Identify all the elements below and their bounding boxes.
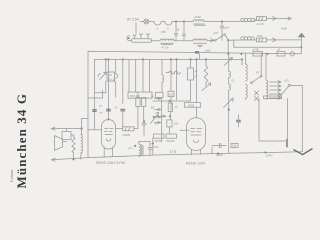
- band switch contact 3: [153, 116, 161, 118]
- wire bus left hook: [95, 59, 106, 129]
- dial lamp: [290, 52, 294, 56]
- speaker rail top: [52, 127, 82, 130]
- wire L3 to L5: [174, 40, 193, 42]
- fuse crosses: [255, 91, 259, 101]
- mains cap 1: [253, 47, 263, 56]
- coil L1 tap 2: [140, 34, 143, 39]
- svg-text:DR09: DR09: [123, 133, 131, 137]
- svg-text:RENS 1294: RENS 1294: [186, 162, 205, 166]
- band switch wiper arrow: [151, 112, 159, 123]
- coupling capacitor C7: [212, 143, 226, 157]
- svg-text:CM: CM: [169, 92, 174, 96]
- svg-text:4·10³: 4·10³: [257, 22, 264, 26]
- wire L1 to L3: [152, 40, 161, 42]
- svg-text:μP0Z: μP0Z: [216, 153, 223, 157]
- svg-text:μT0: μT0: [284, 79, 289, 83]
- wire top chain end: [276, 17, 291, 20]
- wire tube V2 anode: [196, 59, 198, 117]
- coupling box tall: [188, 59, 198, 101]
- band switch contact 1: [151, 95, 161, 100]
- wire IF drop: [142, 59, 144, 92]
- svg-text:1W: 1W: [232, 144, 237, 148]
- mains switch: [251, 54, 263, 84]
- node top 228: [227, 53, 229, 55]
- speaker cone: [55, 136, 67, 151]
- capacitor on anode line: [107, 109, 111, 111]
- wire right drop: [301, 85, 303, 151]
- wire tube1 anode: [108, 59, 110, 119]
- resistor box upper left of V2: [168, 103, 178, 112]
- node tap 1: [175, 21, 177, 23]
- wire tap2 trimmer drop: [182, 22, 185, 41]
- node bus cap drop: [122, 59, 124, 61]
- supply bus: [95, 58, 243, 60]
- wire y101 horizontal: [153, 100, 191, 102]
- coil L6: [241, 37, 257, 40]
- small box B: [156, 92, 164, 97]
- choke winding with core: [139, 142, 143, 157]
- svg-text:WB: WB: [161, 30, 166, 34]
- wire shield drop: [234, 40, 301, 47]
- capacitor C5: [148, 142, 159, 156]
- node shield corner: [301, 47, 303, 49]
- band switch contact 4: [155, 121, 161, 123]
- wire node D to L6: [228, 39, 241, 41]
- wavetrap coil dips: [154, 22, 172, 26]
- node mid rail: [217, 153, 219, 155]
- capacitor on grid feed: [93, 110, 97, 112]
- capacitor C4: [142, 121, 146, 137]
- voltage selector winding: [266, 54, 268, 99]
- node tube1 top: [108, 119, 110, 121]
- wire fuse left lead: [140, 21, 144, 23]
- svg-text:B0: B0: [151, 106, 155, 110]
- arrow connector lower: [267, 38, 277, 42]
- wire tube V2 grid lead: [180, 129, 189, 131]
- wire bus right end drop: [241, 59, 243, 65]
- svg-text:P03: P03: [257, 34, 263, 38]
- power transformer primary upper: [246, 54, 248, 81]
- tube V2 grid dashes: [191, 129, 202, 143]
- svg-text:A0B: A0B: [281, 27, 287, 31]
- node mains 2: [267, 53, 269, 55]
- svg-text:SMC9: SMC9: [167, 139, 175, 143]
- wire mid vertical 3: [135, 59, 137, 92]
- wire mid vertical 4: [149, 59, 151, 92]
- grid stopper box SM3: [185, 103, 201, 108]
- coil L3 with core: [160, 39, 174, 44]
- band switch rail: [161, 98, 163, 143]
- tube V2 envelope: [187, 118, 206, 151]
- svg-text:AT 2,5A: AT 2,5A: [127, 18, 140, 22]
- wire transformer risers: [73, 119, 83, 161]
- antenna input hook: [127, 36, 132, 41]
- svg-text:μM: μM: [225, 26, 230, 30]
- antenna lead wire: [135, 23, 137, 34]
- wire between boxes: [169, 112, 171, 135]
- coil L1 tap 3: [147, 34, 150, 39]
- ground mark under L5: [198, 45, 203, 46]
- node antenna hook: [128, 37, 129, 38]
- antenna coil body L1: [132, 39, 152, 42]
- wire lower chain end: [276, 39, 301, 41]
- wire 199 drop: [199, 54, 201, 60]
- arrow contact into V2 chain: [155, 115, 166, 117]
- svg-text:1W: 1W: [174, 122, 178, 126]
- hf choke column: [224, 54, 235, 154]
- wire vertical 175: [176, 59, 178, 100]
- resistor R5: [123, 127, 135, 131]
- resistor R4a vertical: [134, 92, 140, 128]
- svg-text:μP0Y: μP0Y: [266, 153, 273, 157]
- coupling parts left of V2: [168, 59, 174, 110]
- wire switch rail to bottom: [152, 138, 154, 155]
- wire choke top feed: [139, 141, 150, 143]
- transformer bottom box: [259, 96, 288, 147]
- node bus 1: [105, 59, 107, 61]
- wire tube V1 anode lead: [116, 127, 123, 129]
- wire tube V1 grid lead: [88, 129, 102, 131]
- speaker field coil box: [62, 129, 71, 140]
- node D: [227, 39, 229, 41]
- wire wavetrap to L2: [172, 21, 190, 23]
- wire L2 to node C: [207, 21, 240, 23]
- wire tap1 trimmer drop: [174, 22, 177, 41]
- wire tube V2 cathode leads: [192, 150, 201, 155]
- node choke top: [134, 145, 136, 147]
- wire shield corner drop: [300, 47, 302, 54]
- resistor R4b vertical: [142, 98, 146, 121]
- svg-text:μ07: μ07: [214, 31, 219, 35]
- wire fuse to wavetrap: [149, 21, 154, 23]
- svg-text:München 34 G: München 34 G: [14, 93, 29, 189]
- tube V1 grid dashes: [105, 128, 114, 141]
- svg-text:μ=: μ=: [100, 112, 103, 115]
- node mains 1: [241, 53, 243, 55]
- earth triangle: [298, 33, 306, 48]
- volume control group: [98, 59, 114, 92]
- wire mid vertical 1: [114, 59, 118, 97]
- resistor SMC9: [166, 134, 177, 143]
- svg-text:(0,: (0,: [232, 79, 235, 83]
- svg-text:PY: PY: [256, 70, 260, 74]
- tube V1 envelope: [102, 120, 116, 150]
- capacitor C3: [100, 109, 125, 126]
- svg-text:R7y: R7y: [154, 145, 160, 149]
- svg-text:AA30: AA30: [194, 15, 201, 19]
- main bottom rail: [52, 152, 303, 162]
- coil L5 with core: [193, 39, 207, 43]
- selector tap arrows: [270, 81, 282, 100]
- wire cap drop: [122, 59, 124, 103]
- zigzag resistor vertical: [202, 66, 211, 91]
- svg-text:RENS 1264 SY08: RENS 1264 SY08: [96, 161, 125, 165]
- wire volume return: [88, 90, 103, 98]
- coil L2 with core: [190, 20, 207, 25]
- svg-text:μ5: μ5: [176, 28, 180, 32]
- coil L4 top: [240, 18, 257, 21]
- node bottom right rail: [265, 152, 267, 154]
- screen resistor box DM3M: [128, 92, 152, 98]
- node bus IF drop: [142, 59, 144, 61]
- svg-text:μH: μH: [129, 146, 133, 150]
- node bus tube2: [196, 59, 198, 61]
- svg-text:SM3: SM3: [188, 103, 195, 107]
- wire 206 upper: [205, 59, 207, 66]
- node C trimmer junction: [221, 21, 223, 23]
- selector arm: [280, 79, 291, 97]
- wire mid vertical 5: [162, 59, 164, 92]
- capacitor trimmer C2: [220, 22, 229, 41]
- arrow connector top: [267, 17, 277, 21]
- node bus 206: [205, 59, 207, 61]
- wire transformer top link: [82, 118, 89, 120]
- mains cap 2: [277, 47, 285, 56]
- svg-text:27 B: 27 B: [170, 150, 177, 154]
- power transformer primary lower: [246, 85, 248, 100]
- wire tube V1 cathode leads: [104, 148, 112, 157]
- resistor box lower left of V2: [155, 120, 179, 127]
- chassis arrow symbol: [294, 149, 312, 155]
- resistor SP40: [154, 134, 165, 143]
- switch S1: [215, 34, 229, 42]
- chassis box left lower edge: [87, 130, 89, 158]
- wire selector to drop: [290, 84, 302, 86]
- node bus tube1: [108, 59, 110, 61]
- svg-text:μH0: μH0: [205, 48, 211, 52]
- fuse F1: [144, 19, 149, 24]
- output transformer secondary winding: [81, 135, 83, 156]
- svg-text:4·10³: 4·10³: [162, 46, 169, 50]
- band switch contact 2: [151, 106, 161, 111]
- coil L1 tap 1: [133, 35, 136, 39]
- output transformer primary winding: [71, 135, 75, 159]
- chassis box frame: [88, 51, 301, 129]
- svg-text:μF: μF: [195, 69, 198, 73]
- arrow connector mid: [207, 38, 214, 42]
- wire node D drop: [227, 40, 229, 53]
- node tap 2: [183, 21, 185, 23]
- capacitor blob on top edge: [195, 51, 199, 54]
- svg-text:μF0b: μF0b: [253, 47, 260, 51]
- resistor R2: [257, 38, 267, 42]
- capacitor right of V2: [237, 115, 241, 128]
- node bus 175: [176, 59, 178, 61]
- svg-text:μF: μF: [195, 74, 198, 78]
- resistor 1W box: [231, 143, 238, 147]
- wire mid vertical 2: [128, 59, 130, 92]
- resistor R1: [257, 17, 267, 21]
- svg-text:μF: μF: [277, 47, 281, 51]
- node bus 168: [170, 59, 172, 61]
- anode squiggle resistor: [166, 71, 180, 74]
- svg-text:SP40: SP40: [155, 139, 162, 143]
